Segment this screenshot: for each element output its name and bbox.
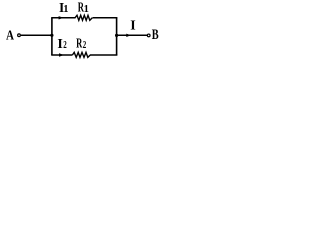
arrowhead current I <box>126 34 131 37</box>
wire right vertical <box>116 18 118 55</box>
resistor R1 zigzag <box>75 15 92 20</box>
wire top branch left segment <box>51 17 75 19</box>
wire bottom branch left segment <box>51 54 72 56</box>
wire right junction to B terminal <box>117 34 147 36</box>
svg-text:I: I <box>57 37 62 52</box>
resistor R2 zigzag <box>72 52 90 57</box>
svg-text:I: I <box>130 18 135 33</box>
wire left vertical <box>51 18 53 55</box>
junction node left <box>50 34 53 37</box>
svg-text:R: R <box>76 35 82 50</box>
terminal circle at B <box>147 34 150 37</box>
svg-text:2: 2 <box>63 40 66 51</box>
svg-text:A: A <box>6 28 15 43</box>
wire bottom branch right segment <box>90 54 117 56</box>
arrowhead current I2 <box>59 53 64 56</box>
terminal circle at A <box>18 34 21 37</box>
svg-text:B: B <box>152 27 159 43</box>
junction node right <box>115 34 118 37</box>
wire top branch right segment <box>93 17 118 19</box>
svg-text:2: 2 <box>83 40 87 51</box>
svg-text:1: 1 <box>84 4 89 15</box>
wire from A terminal to left junction <box>21 34 52 36</box>
svg-text:1: 1 <box>63 4 68 15</box>
arrowhead current I1 <box>59 16 64 19</box>
